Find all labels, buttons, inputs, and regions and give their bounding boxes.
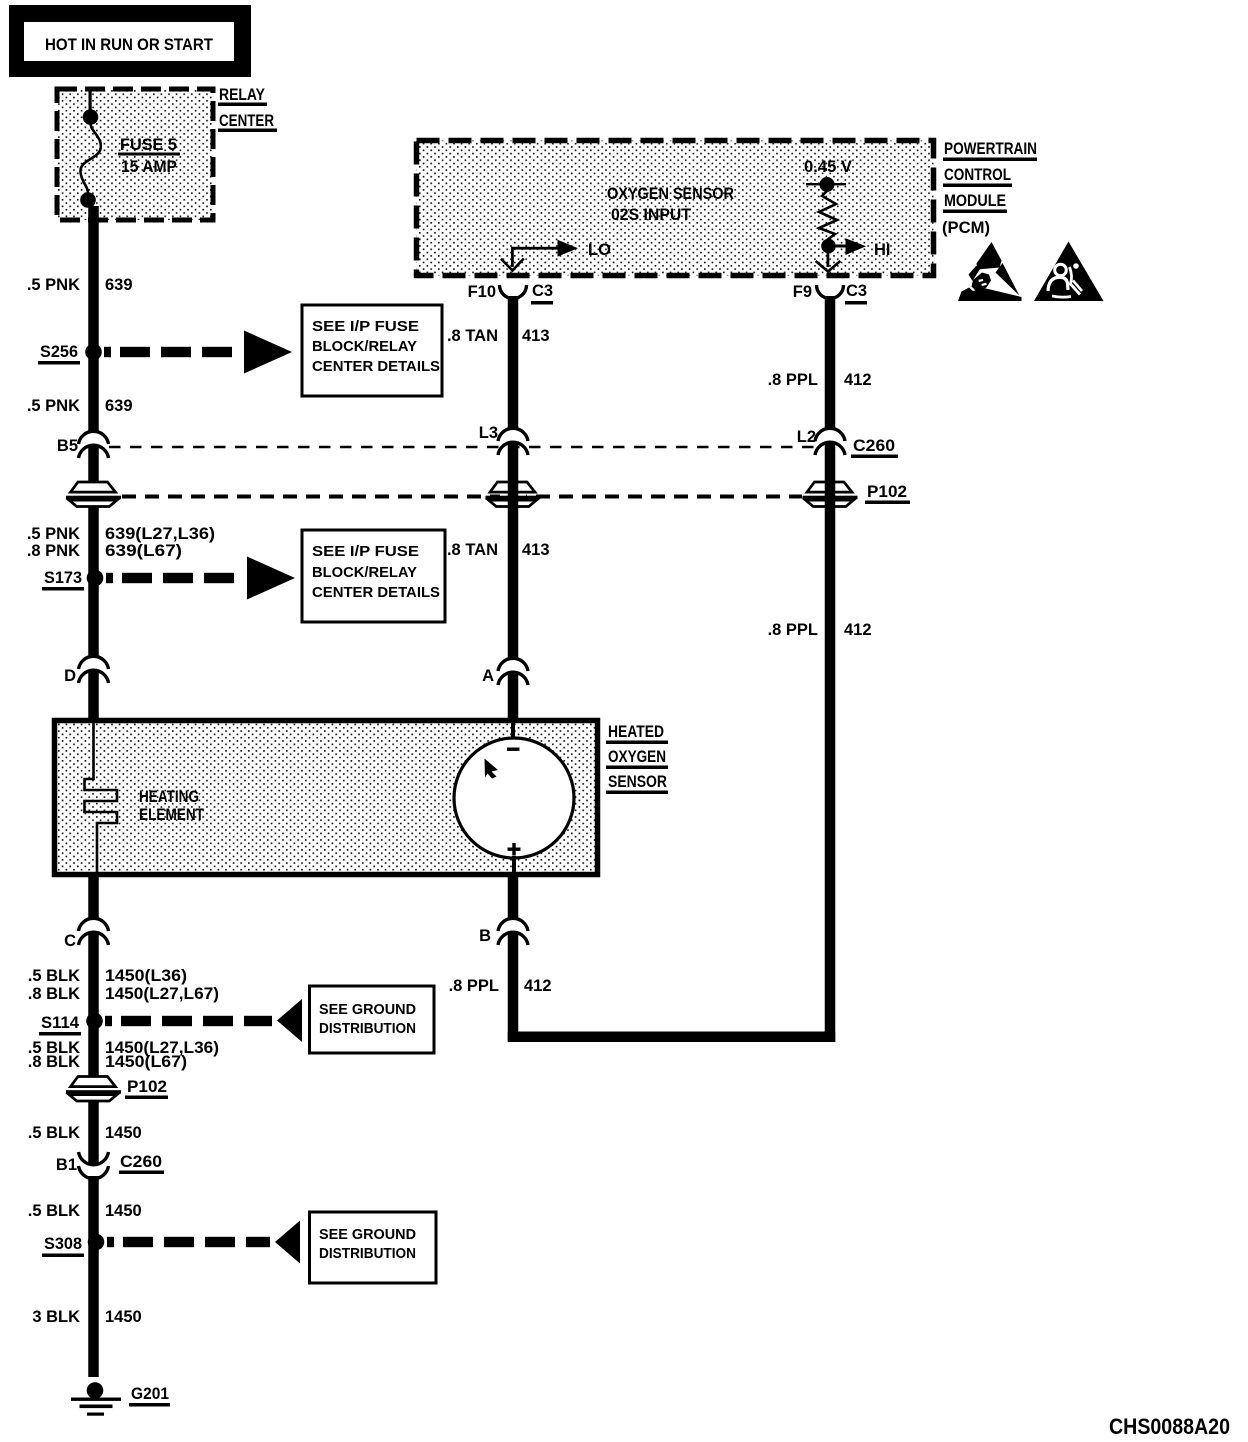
fuse 5 15 AMP: [80, 109, 180, 208]
pin F10 C3: [468, 282, 554, 305]
wire 412 B to corner: [508, 932, 519, 1042]
label .8 TAN 413: [447, 327, 550, 345]
svg-text:.5 PNK: .5 PNK: [27, 525, 80, 543]
svg-text:.5 PNK: .5 PNK: [27, 276, 80, 294]
svg-text:BLOCK/RELAY: BLOCK/RELAY: [312, 565, 417, 581]
svg-text:SEE GROUND: SEE GROUND: [319, 1227, 416, 1243]
svg-text:.8 BLK: .8 BLK: [28, 985, 80, 1003]
ESD sensitive device symbol 1: [958, 242, 1022, 301]
svg-text:LO: LO: [588, 241, 611, 259]
svg-text:SEE I/P FUSE: SEE I/P FUSE: [312, 544, 419, 560]
svg-text:B1: B1: [56, 1156, 77, 1174]
label 3 BLK 1450: [32, 1308, 141, 1326]
label HEATED OXYGEN SENSOR: [606, 723, 668, 794]
svg-text:C260: C260: [120, 1153, 162, 1171]
label .8 PPL 412 (second): [768, 621, 872, 639]
pin F9 C3: [793, 282, 867, 305]
label .5 PNK 639: [27, 276, 133, 294]
svg-text:1450: 1450: [105, 1124, 142, 1142]
label .8 TAN 413 (second): [447, 541, 550, 559]
node LO arrow: [501, 240, 611, 271]
label .5 PNK 639 (second): [27, 397, 133, 415]
label .8 PPL 412: [768, 371, 872, 389]
svg-text:G201: G201: [131, 1385, 169, 1403]
note box see ground distribution (lower): [310, 1212, 437, 1283]
connector D: [64, 656, 108, 685]
heated oxygen sensor box: [55, 721, 598, 875]
svg-text:C260: C260: [853, 437, 895, 455]
label .5 BLK 1450(L36): [28, 967, 187, 985]
label .8 BLK 1450(L27,L67): [28, 985, 219, 1003]
splice S114: [39, 1013, 103, 1036]
svg-text:1450(L27,L67): 1450(L27,L67): [105, 985, 219, 1003]
svg-text:CENTER DETAILS: CENTER DETAILS: [312, 359, 440, 375]
arrow to F9: [816, 252, 841, 272]
svg-text:C3: C3: [846, 282, 867, 300]
svg-text:OXYGEN SENSOR: OXYGEN SENSOR: [607, 185, 734, 203]
svg-text:.8 PPL: .8 PPL: [768, 621, 818, 639]
svg-text:CONTROL: CONTROL: [944, 166, 1011, 184]
wire 639 D to heater box: [88, 670, 99, 720]
label .5 BLK 1450: [28, 1124, 142, 1142]
connector L3 of C260: [479, 424, 528, 455]
svg-text:SEE I/P FUSE: SEE I/P FUSE: [312, 319, 419, 335]
grommet P102 left: [66, 482, 121, 508]
svg-text:3 BLK: 3 BLK: [32, 1308, 80, 1326]
svg-text:HEATING: HEATING: [139, 788, 199, 806]
note box see ground distribution (upper): [310, 986, 435, 1053]
svg-text:BLOCK/RELAY: BLOCK/RELAY: [312, 339, 417, 355]
svg-text:02S INPUT: 02S INPUT: [611, 206, 691, 224]
svg-text:DISTRIBUTION: DISTRIBUTION: [319, 1021, 416, 1037]
svg-text:P102: P102: [867, 483, 907, 501]
svg-text:CENTER: CENTER: [219, 112, 274, 130]
connector B1 of C260: [56, 1152, 164, 1179]
wire 413 F10 to L3: [508, 296, 519, 428]
svg-text:S114: S114: [41, 1014, 80, 1032]
wire 639 between B5 and S173: [88, 445, 99, 656]
svg-text:412: 412: [524, 977, 552, 995]
node HI: [821, 238, 890, 259]
wire heater box to C: [88, 874, 99, 918]
svg-text:A: A: [482, 667, 494, 685]
svg-text:.5 BLK: .5 BLK: [28, 967, 80, 985]
svg-text:.8 PPL: .8 PPL: [768, 371, 818, 389]
svg-text:ELEMENT: ELEMENT: [139, 806, 204, 824]
svg-text:15 AMP: 15 AMP: [121, 158, 177, 176]
svg-text:413: 413: [522, 327, 550, 345]
label .8 BLK 1450(L67): [28, 1053, 187, 1071]
label .8 PNK 639(L67): [27, 542, 182, 560]
label POWERTRAIN CONTROL MODULE (PCM): [942, 140, 1037, 237]
svg-text:639: 639: [105, 276, 133, 294]
svg-text:1450: 1450: [105, 1308, 142, 1326]
wire into fuse: [89, 89, 92, 111]
svg-text:F9: F9: [793, 283, 812, 301]
dashed leader S114 to ground note: [105, 999, 302, 1042]
svg-text:639: 639: [105, 397, 133, 415]
svg-text:CENTER DETAILS: CENTER DETAILS: [312, 585, 440, 601]
relay center box: [57, 89, 213, 220]
wire 413 L3 to A: [508, 442, 519, 658]
wire 412 F9 to L2: [825, 296, 836, 428]
power bus label HOT IN RUN OR START: [9, 5, 251, 77]
oxygen sensor cell: [454, 722, 574, 874]
label .5 BLK 1450 (below B1): [28, 1202, 142, 1220]
svg-text:412: 412: [844, 371, 872, 389]
label .5 PNK 639(L27,L36): [27, 525, 215, 543]
svg-text:HOT IN RUN OR START: HOT IN RUN OR START: [45, 36, 213, 54]
splice S256: [38, 343, 102, 365]
svg-text:RELAY: RELAY: [219, 86, 265, 104]
grommet P102 right: [803, 482, 911, 508]
svg-text:1450: 1450: [105, 1202, 142, 1220]
svg-text:1450(L67): 1450(L67): [105, 1053, 187, 1071]
svg-text:POWERTRAIN: POWERTRAIN: [944, 140, 1037, 158]
ESD grounding strap symbol 2: [1034, 242, 1104, 302]
connector C: [64, 918, 108, 950]
label .8 PPL 412 (sensor output): [449, 977, 552, 995]
wire 412 L2 down to corner: [825, 442, 836, 1042]
svg-text:1450(L36): 1450(L36): [105, 967, 187, 985]
svg-text:B5: B5: [57, 437, 78, 455]
splice S173: [42, 569, 103, 591]
svg-text:.8 TAN: .8 TAN: [447, 541, 498, 559]
svg-text:L3: L3: [479, 424, 498, 442]
note box see I/P fuse block relay center details (lower): [302, 530, 445, 622]
ground G201: [71, 1382, 170, 1416]
reference 0.45 V node: [804, 158, 852, 192]
label OXYGEN SENSOR 02S INPUT: [607, 185, 734, 224]
connector A: [482, 658, 528, 685]
grommet P102 middle: [486, 482, 541, 508]
svg-text:(PCM): (PCM): [942, 219, 990, 237]
svg-text:P102: P102: [127, 1078, 167, 1096]
connector L2 of C260: [797, 428, 898, 458]
svg-text:0.45 V: 0.45 V: [804, 158, 852, 176]
grommet P102 lower: [66, 1076, 168, 1102]
svg-text:MODULE: MODULE: [944, 192, 1006, 210]
svg-text:.8 PPL: .8 PPL: [449, 977, 499, 995]
svg-text:639(L67): 639(L67): [105, 542, 182, 560]
svg-text:SEE GROUND: SEE GROUND: [319, 1002, 416, 1018]
svg-text:F10: F10: [468, 283, 496, 301]
dashed leader S173 to detail note: [106, 557, 295, 600]
svg-text:DISTRIBUTION: DISTRIBUTION: [319, 1246, 416, 1262]
connector B: [479, 918, 528, 945]
drawing number CHS0088A20: [1109, 1414, 1230, 1439]
note box see I/P fuse block relay center details (upper): [302, 305, 442, 396]
svg-text:.8 PNK: .8 PNK: [27, 542, 80, 560]
wire 639 fuse output: [88, 206, 99, 431]
svg-text:S173: S173: [44, 569, 82, 587]
wire 1450 B1 to S308: [88, 1176, 99, 1377]
svg-text:.5 PNK: .5 PNK: [27, 397, 80, 415]
dashed connector line C260: [109, 446, 814, 449]
svg-text:.5 BLK: .5 BLK: [28, 1124, 80, 1142]
svg-text:SENSOR: SENSOR: [608, 773, 667, 791]
label .5 BLK 1450(L27,L36): [28, 1039, 219, 1057]
wire 1450 C to S114: [88, 932, 99, 1164]
svg-text:B: B: [479, 927, 491, 945]
svg-text:CHS0088A20: CHS0088A20: [1109, 1414, 1230, 1439]
svg-text:639(L27,L36): 639(L27,L36): [105, 525, 215, 543]
splice S308: [42, 1234, 104, 1257]
wire 412 horizontal run: [508, 1032, 836, 1043]
powertrain control module box: [417, 141, 934, 276]
svg-text:C: C: [64, 932, 76, 950]
svg-text:FUSE 5: FUSE 5: [120, 136, 177, 154]
svg-text:S256: S256: [40, 343, 78, 361]
svg-text:.5 BLK: .5 BLK: [28, 1202, 80, 1220]
svg-text:HEATED: HEATED: [608, 723, 664, 741]
svg-text:OXYGEN: OXYGEN: [608, 748, 666, 766]
svg-text:.8 BLK: .8 BLK: [28, 1053, 80, 1071]
wire sensor box to B: [508, 874, 519, 918]
svg-text:413: 413: [522, 541, 550, 559]
svg-text:S308: S308: [44, 1235, 82, 1253]
wire 413 A to sensor box: [508, 672, 519, 720]
heating element: [85, 722, 205, 872]
svg-text:D: D: [64, 667, 76, 685]
svg-text:HI: HI: [874, 241, 891, 259]
svg-text:L2: L2: [797, 428, 816, 446]
connector B5 of C260: [57, 431, 109, 458]
dashed grommet line P102: [122, 495, 802, 499]
svg-text:412: 412: [844, 621, 872, 639]
svg-text:.8 TAN: .8 TAN: [447, 327, 498, 345]
dashed leader S256 to detail note: [104, 331, 292, 374]
svg-text:C3: C3: [532, 282, 553, 300]
label RELAY CENTER: [218, 86, 277, 132]
dashed leader S308 to ground note: [107, 1221, 300, 1264]
bias resistor: [819, 191, 837, 240]
